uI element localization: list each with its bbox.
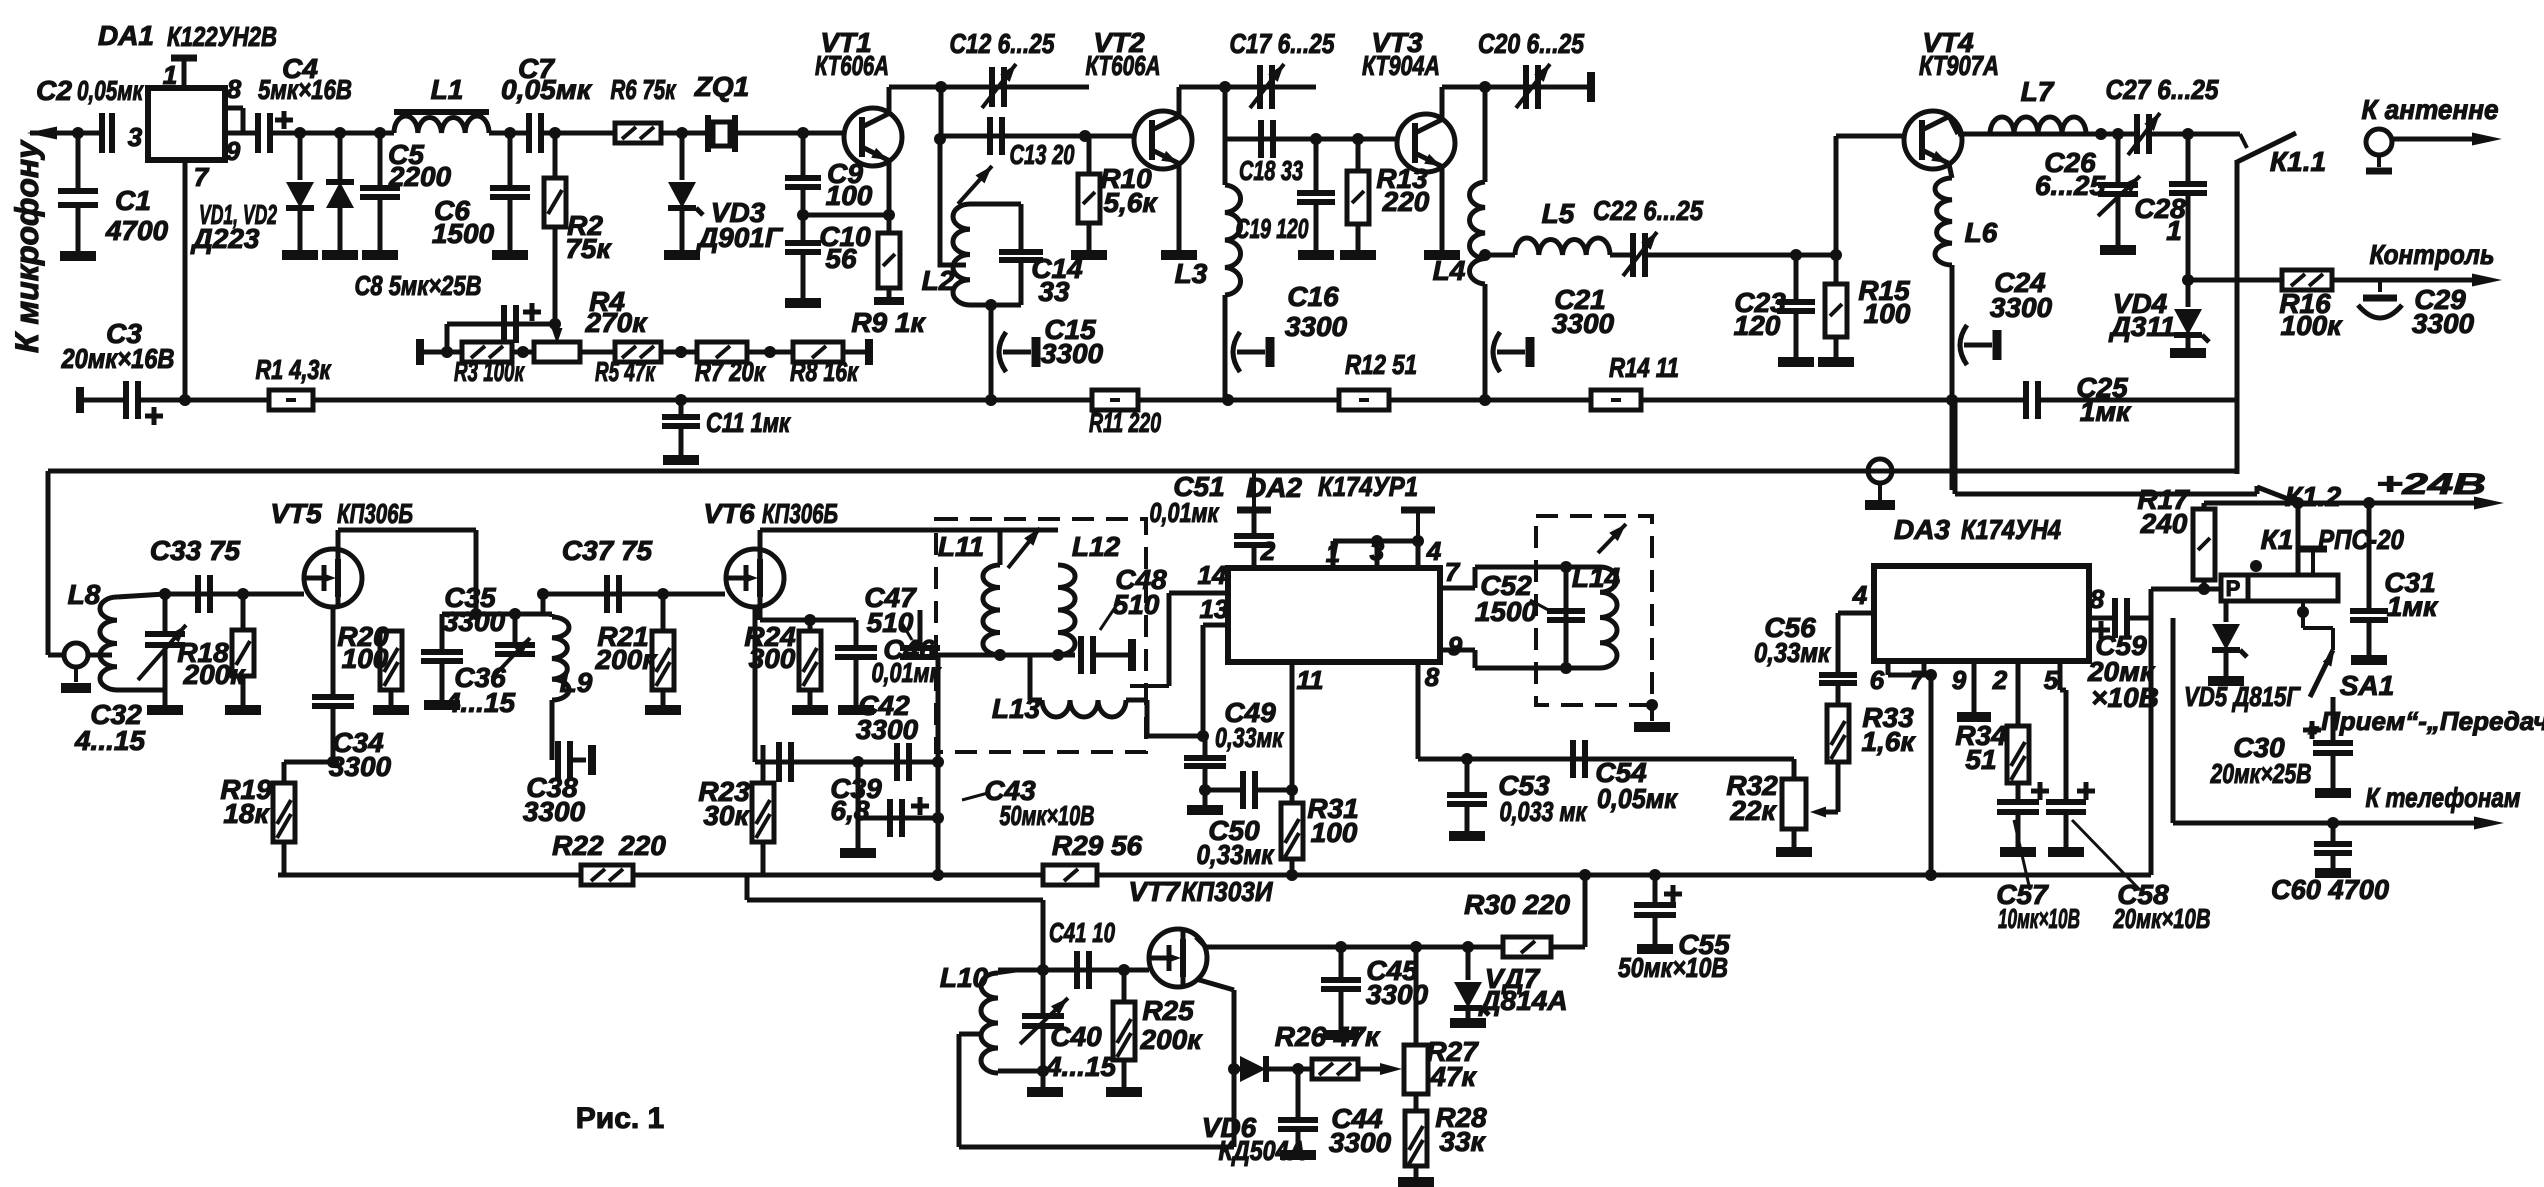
svg-text:КП306Б: КП306Б bbox=[337, 498, 413, 529]
svg-text:4: 4 bbox=[1852, 580, 1868, 610]
ground bbox=[1323, 1030, 1359, 1040]
ground bbox=[1340, 250, 1376, 260]
svg-text:9: 9 bbox=[1448, 631, 1463, 661]
ground bbox=[1637, 944, 1673, 954]
inductor L12 bbox=[1058, 565, 1075, 655]
capacitor C27 bbox=[2134, 114, 2140, 154]
transistor VT3 bbox=[1397, 114, 1455, 172]
wire phones line bbox=[2173, 821, 2490, 826]
inductor L7 bbox=[1962, 132, 2101, 137]
wire middle rail bbox=[48, 469, 2237, 474]
wire x858 down bbox=[856, 762, 861, 848]
ground bbox=[838, 705, 874, 715]
svg-text:C16: C16 bbox=[1287, 281, 1339, 312]
svg-text:R26 47к: R26 47к bbox=[1275, 1021, 1381, 1052]
crystal ZQ1 bbox=[705, 115, 711, 152]
wire node R10 bbox=[1079, 130, 1091, 142]
svg-text:К микрофону: К микрофону bbox=[9, 139, 45, 353]
svg-text:0,33мк: 0,33мк bbox=[1197, 839, 1276, 870]
svg-text:С60 4700: С60 4700 bbox=[2271, 874, 2389, 905]
svg-text:0,33мк: 0,33мк bbox=[1215, 722, 1284, 753]
wire bbox=[2101, 132, 2137, 137]
capacitor C12 bbox=[989, 67, 995, 107]
svg-text:1500: 1500 bbox=[1475, 596, 1538, 627]
wire VT4 collector bbox=[1949, 116, 1958, 134]
svg-text:C13 20: C13 20 bbox=[1010, 139, 1075, 170]
wire mic input bbox=[30, 131, 102, 136]
wire to VT1 base bbox=[735, 131, 844, 136]
wire tank node y614 bbox=[442, 612, 552, 617]
wire VT7 source bbox=[1196, 979, 1234, 990]
wire top y87 VT1-VT2 bbox=[889, 85, 1089, 90]
svg-text:R30 220: R30 220 bbox=[1464, 889, 1570, 920]
diode VD3 bbox=[680, 133, 685, 180]
pin 9 bbox=[225, 131, 258, 136]
svg-text:C41 10: C41 10 bbox=[1049, 917, 1115, 948]
wire VT2 collector bbox=[1177, 87, 1182, 115]
wire VT4 emitter to L6 bbox=[1949, 164, 1952, 178]
capacitor C1 bbox=[76, 133, 81, 191]
svg-text:C18 33: C18 33 bbox=[1239, 155, 1303, 186]
inductor L1 bbox=[394, 109, 489, 115]
resistor R2 bbox=[553, 133, 558, 178]
svg-text:К174УР1: К174УР1 bbox=[1318, 471, 1418, 502]
resistor R23 bbox=[762, 762, 764, 783]
svg-text:47к: 47к bbox=[1429, 1061, 1477, 1092]
ground bbox=[362, 250, 398, 260]
svg-text:3300: 3300 bbox=[1366, 979, 1429, 1010]
svg-text:0,05мк: 0,05мк bbox=[1597, 783, 1679, 814]
resistor R17 bbox=[2204, 501, 2298, 506]
svg-text:L14: L14 bbox=[1572, 562, 1621, 593]
wire rail bbox=[1138, 398, 1339, 403]
inductor L10 bbox=[981, 973, 998, 1073]
wire y136 to VT2 bbox=[941, 134, 1085, 139]
capacitor C58 bbox=[2046, 799, 2086, 805]
wire y762 bbox=[755, 760, 938, 765]
wire riser K1.1 bbox=[2235, 160, 2240, 474]
wire bbox=[489, 131, 529, 136]
ground bbox=[2170, 348, 2206, 358]
ground bbox=[322, 250, 358, 260]
capacitor C38 bbox=[550, 700, 555, 760]
svg-text:2: 2 bbox=[1260, 536, 1276, 566]
svg-text:L12: L12 bbox=[1072, 531, 1121, 562]
svg-text:270к: 270к bbox=[585, 307, 649, 338]
wire down from L6 node bbox=[1950, 400, 1955, 490]
capacitor C17 bbox=[1257, 65, 1263, 109]
wire kontrol arrow bbox=[2331, 278, 2490, 283]
svg-text:3300: 3300 bbox=[1552, 308, 1615, 339]
ground bbox=[147, 705, 183, 715]
wire VT5 drain bbox=[336, 530, 341, 549]
capacitor C55 bbox=[1653, 875, 1658, 905]
svg-text:R25: R25 bbox=[1142, 995, 1194, 1026]
wire rail right bbox=[2038, 398, 2237, 403]
svg-text:L4: L4 bbox=[1433, 255, 1466, 286]
svg-text:К антенне: К антенне bbox=[2362, 94, 2499, 125]
svg-text:SA1: SA1 bbox=[2340, 670, 2394, 701]
ground bbox=[664, 250, 700, 260]
resistor R8 bbox=[793, 342, 843, 362]
wire kontrol node bbox=[2182, 274, 2194, 286]
svg-text:3: 3 bbox=[1370, 536, 1385, 566]
capacitor C14 bbox=[999, 249, 1043, 255]
ground bbox=[1449, 831, 1485, 841]
capacitor C48 bbox=[1078, 636, 1084, 674]
ground bbox=[1298, 250, 1334, 260]
inductor L5 bbox=[1515, 238, 1610, 255]
terminal on rail bbox=[1868, 459, 1892, 483]
transistor VT6 bbox=[726, 549, 784, 607]
ground bbox=[2351, 655, 2387, 665]
wire C9-C10 to R9 bbox=[803, 213, 889, 218]
pin 8 bbox=[225, 106, 243, 111]
capacitor C39 bbox=[776, 742, 782, 782]
wire R30 to rail bbox=[1551, 945, 1585, 950]
svg-text:К1.1: К1.1 bbox=[2270, 146, 2326, 177]
wire pins 6 7 bbox=[1886, 661, 1891, 675]
svg-text:5: 5 bbox=[2044, 665, 2059, 695]
svg-text:C37 75: C37 75 bbox=[562, 535, 653, 566]
wire VT7 drain bbox=[1196, 937, 1206, 947]
pins 1 3 4 bracket bbox=[1331, 541, 1336, 568]
capacitor C49 bbox=[1203, 736, 1208, 756]
svg-text:Контроль: Контроль bbox=[2370, 239, 2495, 270]
capacitor C7 bbox=[526, 113, 532, 153]
dashed box L14 bbox=[1536, 516, 1652, 705]
wire L10 bottom bbox=[998, 1069, 1043, 1074]
svg-text:6...25: 6...25 bbox=[2035, 170, 2105, 201]
svg-text:Д814А: Д814А bbox=[1478, 985, 1567, 1016]
svg-text:4700: 4700 bbox=[105, 215, 169, 246]
wire pin7 drop to rail bbox=[1929, 675, 1934, 875]
svg-text:11: 11 bbox=[1297, 665, 1324, 695]
inductor L2 bbox=[970, 202, 1021, 207]
ground bbox=[1634, 722, 1670, 732]
svg-text:9: 9 bbox=[1952, 665, 1967, 695]
ground bbox=[2100, 245, 2136, 255]
svg-text:К телефонам: К телефонам bbox=[2366, 782, 2521, 813]
svg-text:510: 510 bbox=[1113, 589, 1160, 620]
svg-text:DA1: DA1 bbox=[98, 20, 154, 51]
svg-text:1,6к: 1,6к bbox=[1861, 726, 1916, 757]
svg-text:0,01мк: 0,01мк bbox=[872, 657, 942, 688]
variable arrow L2 bbox=[958, 166, 992, 204]
terminal bar bbox=[1587, 72, 1595, 102]
ground bbox=[1450, 1018, 1486, 1028]
svg-text:R14 11: R14 11 bbox=[1609, 352, 1679, 383]
svg-text:C2: C2 bbox=[36, 75, 72, 106]
inductor L11 bbox=[983, 565, 1000, 655]
ground bbox=[785, 298, 821, 308]
wire +24V bbox=[2292, 497, 2304, 509]
IC DA2 bbox=[1228, 568, 1440, 662]
svg-text:C11 1мк: C11 1мк bbox=[706, 407, 791, 438]
resistor R25 bbox=[1122, 970, 1127, 1002]
svg-text:C33 75: C33 75 bbox=[150, 535, 241, 566]
resistor R30 bbox=[1503, 937, 1551, 957]
svg-text:56: 56 bbox=[825, 243, 857, 274]
svg-text:R29 56: R29 56 bbox=[1052, 830, 1143, 861]
svg-text:Р: Р bbox=[2226, 576, 2241, 601]
wire bottom rail bbox=[278, 873, 2151, 878]
resistor R12 bbox=[1339, 390, 1389, 410]
svg-text:0,05мк: 0,05мк bbox=[501, 74, 593, 105]
zener VD7 bbox=[1466, 947, 1471, 980]
capacitor C21 feedthrough bbox=[1493, 332, 1500, 372]
svg-text:3300: 3300 bbox=[523, 796, 586, 827]
wire to L8 bbox=[88, 653, 112, 658]
capacitor C36 variable bbox=[513, 614, 518, 645]
capacitor C47 bbox=[900, 645, 940, 651]
ground bbox=[792, 705, 828, 715]
wire bottom rail bbox=[80, 398, 126, 403]
capacitor C40 variable bbox=[1041, 970, 1046, 1016]
capacitor C29 feedthrough bbox=[2378, 280, 2382, 292]
ground bbox=[1071, 250, 1107, 260]
capacitor C42 bbox=[894, 743, 900, 781]
resistor R14 bbox=[1591, 390, 1641, 410]
svg-text:КП303И: КП303И bbox=[1182, 876, 1274, 907]
wire VT2 emitter bbox=[1177, 163, 1182, 250]
wire L2 tank tap bbox=[940, 139, 966, 265]
svg-text:5,6к: 5,6к bbox=[1103, 187, 1158, 218]
inductor L9 bbox=[550, 614, 555, 617]
resistor R20 bbox=[390, 578, 392, 631]
ground bbox=[60, 251, 96, 261]
ground bbox=[1778, 357, 1814, 367]
wire y594 to VT6 bbox=[543, 592, 725, 597]
wire VT3 collector bbox=[1440, 87, 1445, 118]
wire bbox=[661, 350, 697, 355]
svg-text:13: 13 bbox=[1200, 594, 1229, 624]
resistor R1 bbox=[269, 390, 313, 410]
svg-text:33к: 33к bbox=[1439, 1126, 1486, 1157]
svg-text:3300: 3300 bbox=[2412, 308, 2475, 339]
svg-text:4...15: 4...15 bbox=[74, 725, 145, 756]
wire L9 bottom to C38 bbox=[550, 700, 555, 745]
svg-text:КТ606А: КТ606А bbox=[1086, 50, 1161, 81]
wire to R15 node bbox=[1647, 253, 1836, 258]
capacitor C37 bbox=[604, 575, 610, 613]
svg-text:22к: 22к bbox=[1729, 795, 1777, 826]
ground bbox=[1106, 1087, 1142, 1097]
svg-text:C1: C1 bbox=[115, 185, 151, 216]
svg-text:200к: 200к bbox=[595, 644, 659, 675]
switch K1.1 bbox=[2237, 133, 2296, 162]
wire gate line bbox=[998, 968, 1149, 973]
wire pin2 bbox=[2016, 661, 2021, 726]
terminal mic2 bbox=[64, 643, 88, 667]
svg-text:VT7: VT7 bbox=[1128, 876, 1181, 907]
resistor R5 bbox=[615, 342, 661, 362]
svg-text:7: 7 bbox=[194, 162, 210, 192]
wire R2 to R4 arrow bbox=[555, 324, 557, 336]
svg-text:C17 6...25: C17 6...25 bbox=[1230, 28, 1335, 59]
pin 7 bbox=[183, 160, 188, 400]
capacitor C60 bbox=[2331, 823, 2336, 844]
ground bbox=[1424, 250, 1460, 260]
resistor R34 bbox=[2007, 726, 2029, 783]
svg-text:240: 240 bbox=[2140, 508, 2188, 539]
inductor L6 bbox=[1935, 178, 1952, 265]
ground bbox=[840, 848, 876, 858]
transistor VT1 bbox=[844, 108, 902, 166]
resistor R33 bbox=[1827, 705, 1849, 762]
capacitor C8 bbox=[501, 305, 507, 343]
wire R33 arrow to R32 bbox=[1836, 762, 1841, 812]
wire pin13 bbox=[1203, 623, 1228, 628]
switch K1.2 bbox=[2257, 487, 2296, 502]
wire to end bar bbox=[843, 350, 865, 355]
terminal antenna bbox=[2366, 129, 2392, 155]
resistor R19 bbox=[273, 783, 295, 842]
ground bbox=[1818, 357, 1854, 367]
resistor R15 bbox=[1834, 255, 1839, 284]
wire bbox=[512, 350, 534, 355]
capacitor C23 bbox=[1794, 255, 1799, 302]
resistor R13 bbox=[1356, 139, 1361, 171]
wire to phones bbox=[2172, 618, 2174, 823]
capacitor C3 bbox=[123, 381, 129, 419]
wire L10 tap loop bbox=[959, 1032, 981, 1037]
svg-text:R11 220: R11 220 bbox=[1089, 407, 1161, 438]
capacitor C34 bbox=[331, 607, 336, 697]
resistor R32 potentiometer bbox=[1782, 779, 1806, 829]
svg-text:8: 8 bbox=[1425, 662, 1440, 692]
capacitor C51 bbox=[1252, 471, 1256, 507]
wire leader C43 bbox=[962, 793, 988, 800]
svg-text:3300: 3300 bbox=[1990, 292, 2053, 323]
svg-text:R1 4,3к: R1 4,3к bbox=[256, 354, 332, 385]
ground bbox=[1398, 1177, 1434, 1187]
wire pin14 bbox=[1169, 591, 1228, 596]
svg-text:ZQ1: ZQ1 bbox=[694, 71, 749, 102]
capacitor C56 bbox=[1819, 672, 1857, 678]
wire relay to SA1 bbox=[2301, 601, 2305, 628]
wire VT6 source drop bbox=[759, 620, 761, 762]
svg-text:2: 2 bbox=[1992, 665, 2008, 695]
svg-text:4...15: 4...15 bbox=[1045, 1051, 1116, 1082]
svg-text:1мк: 1мк bbox=[2387, 591, 2439, 622]
svg-text:100: 100 bbox=[1864, 298, 1911, 329]
wire riser to VT4 base bbox=[1834, 136, 1839, 255]
wire pin8 right bbox=[2089, 616, 2113, 621]
svg-text:К1: К1 bbox=[2261, 524, 2294, 555]
capacitor C50 bbox=[1205, 789, 1292, 791]
ground bbox=[1280, 1150, 1316, 1160]
ground bbox=[2000, 847, 2036, 857]
svg-text:200к: 200к bbox=[183, 659, 247, 690]
resistor R16 bbox=[2282, 270, 2332, 290]
capacitor C59 bbox=[2112, 598, 2118, 638]
wire rail bbox=[1388, 398, 1591, 403]
wire antenna arrow bbox=[2392, 137, 2490, 142]
svg-text:R7 20к: R7 20к bbox=[695, 356, 766, 387]
terminal bar left bbox=[76, 387, 84, 413]
svg-text:120: 120 bbox=[1734, 310, 1781, 341]
svg-text:C20 6...25: C20 6...25 bbox=[1478, 28, 1584, 59]
wire y255 L5 line bbox=[1485, 253, 1515, 258]
wire R23 top bbox=[755, 761, 763, 763]
svg-text:C40: C40 bbox=[1050, 1021, 1102, 1052]
svg-text:КТ606А: КТ606А bbox=[815, 50, 889, 81]
wire node to C1 bbox=[72, 127, 84, 139]
capacitor C54 bbox=[1570, 740, 1576, 778]
wire pin9 ground bbox=[1972, 661, 1977, 712]
svg-text:РПС-20: РПС-20 bbox=[2318, 524, 2404, 555]
svg-text:+24В: +24В bbox=[2376, 468, 2486, 501]
wire C8 branch bbox=[445, 324, 450, 352]
svg-text:VT6: VT6 bbox=[703, 498, 755, 529]
capacitor C10 bbox=[785, 240, 821, 246]
transistor VT7 bbox=[1149, 929, 1207, 987]
capacitor C26 bbox=[2116, 134, 2121, 185]
svg-text:C8 5мк×25В: C8 5мк×25В bbox=[355, 270, 482, 301]
svg-text:C19 120: C19 120 bbox=[1236, 213, 1309, 244]
wire bbox=[541, 131, 615, 136]
svg-text:КП306Б: КП306Б bbox=[762, 498, 838, 529]
wire bbox=[580, 350, 615, 355]
wire emitter to R9 bbox=[887, 160, 892, 233]
terminal bar bbox=[1095, 653, 1128, 658]
wire pin11 bbox=[1290, 662, 1295, 803]
svg-text:R8 16к: R8 16к bbox=[790, 356, 859, 387]
svg-text:R6 75к: R6 75к bbox=[611, 74, 677, 105]
svg-text:100: 100 bbox=[342, 643, 389, 674]
resistor R10 bbox=[1087, 136, 1092, 174]
svg-text:К174УН4: К174УН4 bbox=[1961, 514, 2061, 545]
svg-text:R9 1к: R9 1к bbox=[851, 307, 926, 338]
svg-text:3300: 3300 bbox=[1329, 1127, 1392, 1158]
svg-text:3: 3 bbox=[128, 122, 143, 152]
wire L13 right to pin13 node bbox=[1126, 698, 1147, 703]
svg-text:200к: 200к bbox=[1140, 1024, 1204, 1055]
diode VD1 bbox=[298, 133, 303, 180]
capacitor C18 bbox=[1258, 120, 1264, 158]
capacitor C4 bbox=[255, 113, 261, 153]
diode VD4 bbox=[2186, 280, 2191, 307]
capacitor C52 bbox=[1564, 567, 1569, 668]
wire pin4 bbox=[1838, 611, 1874, 616]
wire L13 left bbox=[1030, 698, 1042, 703]
svg-text:3300: 3300 bbox=[329, 751, 392, 782]
capacitor C46 bbox=[854, 620, 859, 648]
wire riser left bbox=[1223, 87, 1228, 139]
svg-text:3300: 3300 bbox=[856, 714, 919, 745]
svg-text:R12 51: R12 51 bbox=[1345, 349, 1417, 380]
pin 1 bbox=[171, 55, 197, 62]
svg-text:Рис. 1: Рис. 1 bbox=[576, 1102, 665, 1135]
wire y139 VT2-VT3 bbox=[1225, 137, 1397, 142]
wire bbox=[747, 350, 793, 355]
wire rail bbox=[1641, 398, 2026, 403]
svg-text:33: 33 bbox=[1038, 276, 1070, 307]
capacitor C13 bbox=[987, 117, 993, 155]
resistor R31 bbox=[1281, 803, 1303, 859]
wire x938 node bbox=[936, 655, 941, 875]
svg-text:5мк×16В: 5мк×16В bbox=[258, 74, 352, 105]
capacitor C6 bbox=[508, 133, 513, 188]
relay contact dots bbox=[2250, 560, 2262, 572]
capacitor C28 bbox=[2186, 134, 2191, 184]
svg-text:R22 220: R22 220 bbox=[552, 830, 666, 861]
svg-text:3300: 3300 bbox=[443, 606, 506, 637]
svg-text:2200: 2200 bbox=[388, 161, 452, 192]
svg-text:8: 8 bbox=[2090, 584, 2105, 614]
svg-text:1500: 1500 bbox=[432, 218, 495, 249]
